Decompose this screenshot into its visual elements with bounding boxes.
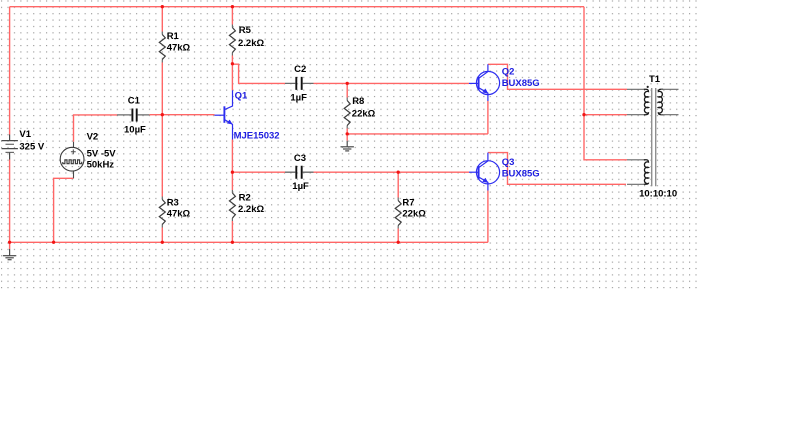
svg-text:Q2: Q2 bbox=[502, 67, 515, 78]
junction: C2 / R8 / Q2 base node bbox=[346, 82, 349, 85]
T1 core lines bbox=[652, 88, 656, 186]
svg-text:10:10:10: 10:10:10 bbox=[639, 189, 677, 200]
wire: C1 to bias node to Q1 base bbox=[149, 114, 214, 116]
wire: center-tap to transformer middle pin bbox=[584, 114, 627, 116]
svg-text:50kHz: 50kHz bbox=[87, 159, 115, 170]
T1 primary winding bottom bbox=[644, 160, 649, 185]
junction: R1 at +325V rail bbox=[161, 5, 164, 8]
svg-text:22kΩ: 22kΩ bbox=[352, 108, 376, 119]
svg-text:1µF: 1µF bbox=[292, 181, 309, 192]
wire: R8 top lead bbox=[346, 83, 348, 97]
grid dot area bbox=[0, 0, 700, 293]
wire: C3 to R7 junction to Q3 base bbox=[314, 171, 470, 173]
resistor R7 bbox=[395, 198, 401, 229]
svg-text:R8: R8 bbox=[352, 96, 364, 107]
ground (below R8) bbox=[341, 141, 354, 151]
capacitor C1 bbox=[117, 109, 149, 122]
wire: R8 ground stub bbox=[346, 134, 348, 141]
svg-text:5V -5V: 5V -5V bbox=[87, 149, 117, 160]
T1 primary winding top bbox=[644, 89, 649, 114]
svg-text:325 V: 325 V bbox=[19, 141, 44, 152]
svg-text:R3: R3 bbox=[167, 197, 179, 208]
wire: center-tap column from top rail bbox=[584, 7, 627, 160]
T1 right pin wires bbox=[661, 89, 679, 114]
T1 secondary winding bbox=[658, 89, 663, 114]
svg-text:2.2kΩ: 2.2kΩ bbox=[238, 204, 264, 215]
junction: R7 at ground rail bbox=[397, 241, 400, 244]
resistor R8 bbox=[344, 98, 350, 129]
transistor Q3 (NPN BUX85G) bbox=[469, 153, 500, 191]
svg-text:Q1: Q1 bbox=[235, 90, 248, 101]
wire: Q3 collector to transformer pin bbox=[488, 153, 626, 185]
svg-text:Q3: Q3 bbox=[502, 157, 515, 168]
svg-text:22kΩ: 22kΩ bbox=[402, 209, 426, 220]
resistor R1 bbox=[159, 32, 165, 63]
junction: bias node R1/R3/C1/Q1 base bbox=[161, 113, 164, 116]
resistor R2 bbox=[229, 190, 235, 221]
wire: jog from collector junction to C2 bbox=[232, 64, 285, 83]
capacitor C3 bbox=[285, 166, 314, 179]
source V2 (pulse) bbox=[60, 142, 84, 179]
svg-text:V2: V2 bbox=[87, 132, 99, 143]
resistor R5 bbox=[229, 25, 235, 56]
wire: R8 junction to Q2 emitter bbox=[347, 133, 488, 135]
wire: R8 bottom lead bbox=[346, 129, 348, 134]
wire: R5 bottom to collector junction bbox=[231, 56, 233, 64]
wire: Q1 emitter junction to C3 bbox=[232, 171, 285, 173]
svg-text:C1: C1 bbox=[128, 95, 141, 106]
wire: C2 to R8 junction to Q2 base bbox=[314, 82, 470, 84]
svg-text:47kΩ: 47kΩ bbox=[167, 42, 191, 53]
wire: V2 minus lead down to rail bbox=[54, 178, 74, 242]
svg-text:T1: T1 bbox=[649, 74, 661, 85]
svg-text:C3: C3 bbox=[294, 153, 306, 164]
svg-text:BUX85G: BUX85G bbox=[502, 168, 540, 179]
svg-text:MJE15032: MJE15032 bbox=[234, 130, 280, 141]
svg-text:V1: V1 bbox=[19, 129, 31, 140]
junction: R5 at +325V rail bbox=[231, 5, 234, 8]
junction: V1 at ground rail bbox=[8, 241, 11, 244]
svg-text:2.2kΩ: 2.2kΩ bbox=[238, 38, 264, 49]
wire: Q1 collector lead bbox=[231, 64, 233, 91]
svg-text:R2: R2 bbox=[239, 193, 251, 204]
wire: V1 bottom lead bbox=[9, 160, 11, 243]
junction: Q1 collector node bbox=[231, 62, 234, 65]
junction: R3 at ground rail bbox=[161, 241, 164, 244]
wire: R7 top lead bbox=[397, 172, 399, 197]
wire: R5 top lead bbox=[231, 7, 233, 25]
svg-text:R5: R5 bbox=[239, 25, 252, 36]
svg-text:BUX85G: BUX85G bbox=[502, 78, 540, 89]
wire: ground bottom rail bbox=[10, 241, 488, 243]
wire: R2 top lead bbox=[231, 172, 233, 190]
T1 left pin wires bbox=[627, 89, 644, 184]
wire: R7 bottom lead bbox=[397, 229, 399, 243]
svg-text:R1: R1 bbox=[167, 31, 180, 42]
junction: center-tap column at T1 middle pin bbox=[582, 113, 585, 116]
transformer T1 bbox=[627, 86, 679, 187]
capacitor C2 bbox=[285, 77, 314, 90]
wire: V1 top lead bbox=[9, 7, 11, 135]
wire: R1 bottom to R3 top (bias column) bbox=[161, 63, 163, 197]
transistor Q2 (NPN BUX85G) bbox=[469, 64, 500, 101]
wire: R1 top lead bbox=[161, 7, 163, 32]
junction: R8 / Q2 emitter / ground node bbox=[346, 132, 349, 135]
wire: Q3 emitter to ground rail bbox=[487, 191, 489, 243]
svg-text:47kΩ: 47kΩ bbox=[167, 209, 191, 220]
transistor Q1 (NPN MJE15032) bbox=[215, 90, 233, 139]
svg-text:1µF: 1µF bbox=[290, 92, 307, 103]
wire: R3 bottom lead bbox=[161, 228, 163, 243]
svg-text:10µF: 10µF bbox=[124, 124, 146, 135]
wire: Q2 emitter down lead bbox=[487, 101, 489, 134]
wire: +325V top rail bbox=[10, 6, 584, 8]
wire: Q1 emitter to C3 junction bbox=[231, 140, 233, 173]
svg-text:R7: R7 bbox=[402, 197, 414, 208]
ground (left, below rail) bbox=[3, 249, 16, 260]
resistor R3 bbox=[159, 197, 165, 228]
junction: R2 at ground rail bbox=[231, 241, 234, 244]
battery V1 bbox=[2, 135, 18, 160]
wire: Q2 collector to transformer top pin bbox=[488, 64, 627, 89]
wire: V2 plus lead up to C1 row bbox=[74, 115, 118, 142]
wire: left ground stub bbox=[9, 242, 11, 249]
junction: V2 at ground rail bbox=[52, 241, 55, 244]
junction: C3 / R7 / Q3 base node bbox=[397, 171, 400, 174]
wire: R2 bottom lead bbox=[231, 221, 233, 242]
svg-text:C2: C2 bbox=[294, 64, 306, 75]
junction: Q1 emitter / R2 / C3 node bbox=[231, 171, 234, 174]
T1 polarity dot bbox=[647, 86, 649, 88]
